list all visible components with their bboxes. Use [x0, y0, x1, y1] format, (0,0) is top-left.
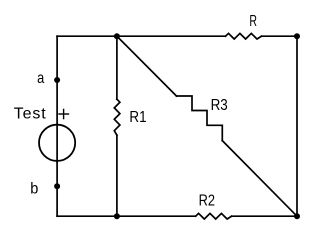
wire left vertical upper — [56, 36, 58, 124]
wire diagonal upper (R3 lead) — [117, 36, 177, 96]
svg-text:R3: R3 — [211, 97, 228, 114]
wire left vertical lower — [56, 161, 58, 216]
resistor R — [226, 33, 262, 39]
node junction bottom middle — [114, 213, 120, 219]
node a terminal dot — [54, 77, 60, 83]
wire diagonal lower (R3 lead) — [222, 141, 297, 217]
svg-text:a: a — [37, 70, 45, 88]
wire top-left horizontal — [57, 35, 117, 37]
plus sign of source — [59, 109, 69, 118]
svg-text:Test: Test — [14, 106, 47, 123]
wire middle vertical lower — [116, 135, 118, 216]
resistor R1 — [114, 99, 120, 135]
wire through source — [56, 124, 58, 162]
node junction bottom right — [294, 213, 300, 219]
voltage source Test circle — [39, 125, 75, 161]
wire middle vertical upper — [116, 36, 118, 99]
resistor R2 — [196, 213, 232, 219]
wire bottom to resistor R2 — [117, 215, 196, 217]
wire resistor R2 to bottom-right corner — [232, 215, 297, 217]
svg-text:b: b — [30, 180, 38, 198]
wire top to resistor R — [117, 35, 226, 37]
resistor R3 staircase — [177, 96, 223, 141]
wire right vertical — [296, 36, 298, 216]
svg-text:R: R — [249, 12, 257, 30]
wire resistor R to top-right corner — [262, 35, 298, 37]
node junction top middle — [114, 33, 120, 39]
node b terminal dot — [54, 183, 60, 189]
svg-text:R1: R1 — [129, 109, 146, 126]
node junction top right — [294, 33, 300, 39]
wire bottom-left horizontal — [57, 215, 117, 217]
svg-text:R2: R2 — [199, 192, 215, 210]
